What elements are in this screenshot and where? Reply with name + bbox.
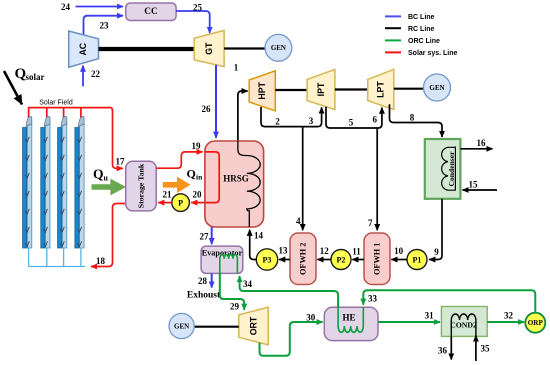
svg-text:P: P [178,199,183,208]
svg-text:u: u [104,174,109,183]
wire 12 P2 to OFWH 2 (black) [317,259,331,261]
svg-text:HPT: HPT [257,81,267,99]
svg-text:29: 29 [230,302,240,312]
collector 4 [75,116,84,248]
wire 10 P1 to OFWH 1 (black) [391,259,407,261]
svg-text:22: 22 [91,69,101,79]
svg-text:Solar Field: Solar Field [39,100,73,107]
wire 9 condenser to P1 (black) [429,199,442,260]
svg-text:15: 15 [469,180,479,190]
wire 36 cooling out (black) [450,336,452,359]
svg-text:HRSG: HRSG [223,174,249,184]
wire 32 COND2 to ORP (green) [487,321,524,323]
wire 4 extraction to OFWH 2 (black) [302,127,304,231]
compressor AC [69,31,99,67]
svg-text:LPT: LPT [376,81,386,98]
wire 15 cooling water in (black) [463,189,498,191]
svg-text:10: 10 [394,246,404,256]
svg-text:Solar sys. Line: Solar sys. Line [408,50,458,57]
svg-text:17: 17 [116,157,126,167]
wire 21 pump P to tank (red) [158,202,172,204]
svg-text:24: 24 [61,2,71,12]
wire 35 cooling in (black) [475,336,477,362]
shaft IPT-LPT (black) [335,88,368,90]
wire 11 OFWH 1 to P2 (black) [352,259,364,261]
wire 7 extraction to OFWH 1 (black) [376,128,378,230]
wire 20 HRSG loop to pump P (red) [191,152,219,203]
svg-text:ORT: ORT [249,316,259,335]
svg-text:5: 5 [349,118,354,128]
svg-text:ORC Line: ORC Line [408,38,440,45]
wire 29 evaporator to ORT (green) [220,273,244,309]
wire 26 GT to HRSG (blue) [215,65,217,138]
svg-text:30: 30 [306,313,316,323]
svg-text:Condenser: Condenser [447,151,456,187]
svg-text:Storage Tank: Storage Tank [137,163,146,208]
svg-text:25: 25 [193,3,203,13]
svg-text:GEN: GEN [271,44,286,52]
svg-text:P3: P3 [263,255,272,264]
generator GEN (BC) [265,34,292,61]
collector 1 [23,116,32,248]
svg-text:7: 7 [368,218,373,228]
legend ORC Line [385,38,440,45]
svg-text:BC Line: BC Line [408,14,435,21]
Qin arrow (orange block) [163,177,191,193]
svg-text:32: 32 [504,311,514,321]
condenser coil (black) [442,147,456,191]
solar header pipe (red) [29,108,84,125]
svg-text:11: 11 [352,247,361,257]
svg-text:23: 23 [100,21,110,31]
evaporator coil (green) [220,254,238,273]
wire 18 storage tank to solar field (red) [91,204,126,267]
svg-text:OFWH 2: OFWH 2 [299,243,308,276]
legend Solar sys. Line [385,50,458,57]
svg-text:26: 26 [202,104,212,114]
condenser COND2 [441,307,487,337]
svg-text:AC: AC [78,42,88,55]
legend RC Line [385,26,435,33]
pump P3 [256,249,277,270]
svg-text:13: 13 [279,246,289,256]
svg-text:8: 8 [410,113,415,123]
svg-text:RC Line: RC Line [408,26,435,33]
shaft AC-GT (black) [99,47,195,51]
shaft HPT-IPT (black) [275,89,307,91]
svg-text:16: 16 [477,138,487,148]
collector 2 [41,116,50,248]
pump P2 [331,250,351,270]
turbine ORT [239,307,268,345]
turbine IPT [307,69,335,109]
svg-text:6: 6 [373,115,378,125]
svg-text:33: 33 [368,294,378,304]
turbine HPT [249,71,275,111]
wire 14 P3 to HRSG (black) [250,230,257,260]
svg-text:GEN: GEN [429,84,444,92]
wire 1 HRSG to HPT (black) [238,91,248,144]
svg-text:35: 35 [481,344,491,354]
heat exchanger HE [324,307,378,340]
svg-text:19: 19 [192,141,202,151]
shaft LPT-GEN (black) [394,88,424,90]
svg-text:IPT: IPT [316,82,326,96]
svg-text:P1: P1 [413,255,422,264]
solar return pipe (light blue) [29,248,85,267]
svg-text:P2: P2 [337,255,346,264]
wire 31 HE to COND2 (green) [378,321,440,323]
OFWH 1 [364,233,390,285]
svg-text:31: 31 [425,311,435,321]
svg-text:14: 14 [254,231,264,241]
wire 23 AC to CC (blue) [84,16,124,35]
svg-text:CC: CC [144,7,157,17]
svg-text:18: 18 [96,256,106,266]
Qu arrow (green block) [92,179,127,196]
svg-text:in: in [196,173,203,182]
Qin label [187,167,204,182]
svg-text:Q: Q [187,167,196,181]
svg-text:36: 36 [438,346,448,356]
pump P [172,194,190,212]
wire 22 air intake (blue) [82,66,84,87]
wire 34 HE to evaporator (green) [240,276,339,307]
svg-text:20: 20 [193,190,203,200]
svg-text:27: 27 [200,232,210,242]
wire 5-6 IPT exhaust to LPT (black) [326,107,382,128]
svg-text:3: 3 [309,116,314,126]
collector 3 [58,116,67,248]
wire 17 header to storage tank (red) [84,107,123,168]
shaft GT-GEN (black) [224,47,265,49]
wire 13 OFWH 2 to P3 (black) [279,259,290,261]
OFWH 2 [290,233,316,285]
COND2 coil (black) [451,314,476,336]
svg-text:Exhoust: Exhoust [187,291,221,301]
shaft ORT-GEN (black) [194,326,239,328]
wire 16 cooling water out (black) [460,148,492,150]
wire 25 CC to GT (blue) [176,11,210,33]
svg-text:12: 12 [320,246,330,256]
svg-text:ORP: ORP [528,319,544,327]
red HTF loop inside HRSG (redrawn over box) [205,152,219,203]
svg-text:28: 28 [198,276,208,286]
svg-text:solar: solar [26,72,45,82]
wire 30 ORT to HE (green) [260,322,323,356]
svg-text:OFWH 1: OFWH 1 [373,243,382,276]
condenser (RC) [425,139,461,199]
gas turbine GT [194,30,224,66]
HRSG steam coil (black) [238,141,260,227]
generator GEN (ORC) [169,313,194,338]
HRSG [205,141,264,227]
svg-text:34: 34 [243,279,253,289]
pump ORP [525,313,545,333]
wire 27 HRSG gas to evaporator (blue) [211,227,213,244]
wire 19 tank to HRSG (red) [156,152,202,168]
Qu label [93,167,109,183]
wire 24 inlet to CC (blue) [76,6,124,8]
wire 28 exhaust out (blue) [211,273,213,287]
turbine LPT [368,69,394,109]
Qsolar arrow [4,71,22,105]
svg-text:GT: GT [204,42,214,55]
svg-text:1: 1 [234,63,239,73]
Qsolar label [15,66,45,82]
svg-text:COND2: COND2 [450,320,477,329]
pump P1 [407,250,427,270]
wire 33 ORP to HE (green) [363,290,535,312]
svg-text:9: 9 [434,247,439,257]
svg-text:2: 2 [275,117,280,127]
svg-text:HE: HE [342,312,355,322]
evaporator [201,246,243,273]
storage tank [126,161,157,211]
wire 8 LPT to condenser (black) [390,104,443,137]
generator GEN (RC) [424,74,451,101]
svg-text:Q: Q [93,167,104,182]
HE coil (green) [338,307,363,332]
svg-text:GEN: GEN [174,322,189,330]
svg-text:4: 4 [296,216,301,226]
combustion chamber CC [126,3,176,21]
legend BC Line [385,14,435,21]
svg-text:21: 21 [163,190,173,200]
wire 2-3 HPT exhaust to IPT (black) [261,107,322,127]
